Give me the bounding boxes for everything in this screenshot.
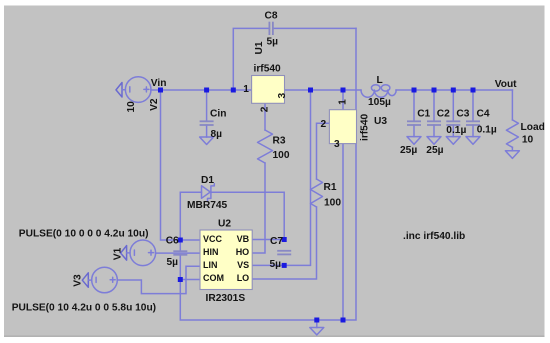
capacitor C3 plates [446,120,460,122]
capacitor C7 plates [277,250,291,252]
wire VB pin stub [252,239,284,241]
ground under Load [505,151,519,159]
svg-text:Load: Load [521,122,545,133]
capacitor Cin plates [200,120,214,122]
inductor L [361,90,396,97]
svg-text:25µ: 25µ [426,145,443,156]
wire C1 leads [413,90,415,121]
wire Load bottom lead [511,147,513,151]
node VB junction [282,237,287,242]
node Cin junction [204,88,209,93]
node COM junction [178,277,183,282]
svg-text:R3: R3 [273,136,286,147]
svg-text:VS: VS [237,260,249,270]
node C8 left junction [231,88,236,93]
svg-text:2: 2 [321,119,327,130]
svg-text:PULSE(0 10 4.2u 0 0 5.8u 10u): PULSE(0 10 4.2u 0 0 5.8u 10u) [12,302,156,313]
node C2 junction [432,88,437,93]
wire switch node U1 to L [285,89,362,91]
resistor R1 [311,179,323,207]
ground under C3 [446,137,460,145]
ground under Cin [200,137,214,145]
wire COM down to ground rail [180,28,356,320]
wire HO to R3 bottom [252,163,265,253]
ground under C1 [407,137,421,145]
wire R1 top to U3 gate [317,123,330,179]
wire C4 leads [472,90,474,121]
wire D1 anode branch [180,192,201,240]
wire Cin top lead [206,90,208,121]
wire ground rail stub [316,320,318,328]
wire C6 bottom lead to COM node [179,255,181,280]
svg-text:V2: V2 [149,98,160,111]
wire U3 source to ground rail [342,144,344,320]
svg-text:10: 10 [522,135,534,146]
svg-text:V1: V1 [112,247,123,260]
svg-text:3: 3 [277,93,288,99]
voltage source V3 [92,267,118,293]
svg-text:IR2301S: IR2301S [206,293,246,304]
svg-text:2: 2 [259,106,270,112]
capacitor C8 plates [268,22,270,35]
wire Vin down to VCC [161,90,201,240]
svg-text:U3: U3 [374,116,387,127]
svg-text:1: 1 [338,99,349,105]
svg-text:8µ: 8µ [211,129,223,140]
svg-text:VB: VB [237,234,250,244]
resistor Load [506,120,518,147]
svg-text:LO: LO [237,273,250,283]
ground under C2 [427,137,441,145]
wire L to Vout [396,89,512,91]
wire C3 leads [452,90,454,121]
ground of V1 [121,246,127,261]
svg-text:.inc irf540.lib: .inc irf540.lib [403,231,465,242]
svg-text:MBR745: MBR745 [187,200,228,211]
wire V3 to LIN [117,266,200,293]
svg-text:V3: V3 [72,274,83,287]
wire D1 cathode to VB [211,192,284,239]
svg-text:1: 1 [243,84,249,95]
node switch/VS junction [308,88,313,93]
node Vin junction [158,88,163,93]
svg-text:C7: C7 [270,236,283,247]
svg-text:R1: R1 [324,182,337,193]
node C3 junction [451,88,456,93]
svg-text:VCC: VCC [203,234,223,244]
svg-text:HIN: HIN [203,247,219,257]
wire LO to R1 bottom [252,207,316,279]
capacitor C2 plates [427,120,441,122]
node VS/C7 junction [282,263,287,268]
svg-text:irf540: irf540 [360,113,371,141]
ground at main rail [310,328,324,335]
node C4 junction [471,88,476,93]
resistor R3 [258,130,273,163]
capacitor C1 plates [407,120,421,122]
node ground rail junction 1 [314,318,319,323]
voltage source V1 [130,240,156,266]
svg-text:C1: C1 [417,109,430,120]
wire C6 top lead [179,240,181,251]
svg-text:irf540: irf540 [254,64,282,75]
ground of V3 [82,273,88,288]
wire C2 leads [433,90,435,121]
body U2 IR2301S gate driver [200,230,252,290]
svg-text:Vin: Vin [151,78,167,89]
svg-text:C6: C6 [166,236,179,247]
svg-text:HO: HO [236,247,250,257]
diode D1 (schottky MBR745) [202,186,211,199]
wire U3 drain to switch node [342,90,344,110]
svg-text:25µ: 25µ [400,145,417,156]
wire C8 right lead [273,27,356,29]
voltage source V2 [125,77,151,103]
capacitor C4 plates [466,120,480,122]
svg-text:5µ: 5µ [167,257,179,268]
svg-text:10: 10 [126,101,137,113]
wire Vin rail [151,89,252,91]
svg-text:0.1µ: 0.1µ [446,125,466,136]
svg-text:COM: COM [203,273,224,283]
svg-text:100: 100 [324,197,341,208]
svg-text:100: 100 [273,150,290,161]
node U3 drain junction [341,88,346,93]
body U3 irf540 (low-side MOSFET) [329,110,356,144]
wire R3 top to U1 gate pin 2 [264,103,266,130]
wire VS pin to switch node [252,90,310,265]
svg-text:0.1µ: 0.1µ [477,124,497,135]
wire C8 left lead [233,28,269,90]
svg-text:U2: U2 [218,219,231,230]
svg-text:Vout: Vout [495,79,517,90]
svg-text:C2: C2 [437,109,450,120]
svg-text:PULSE(0 10 0 0 0 4.2u 10u): PULSE(0 10 0 0 0 4.2u 10u) [19,229,149,240]
svg-text:5µ: 5µ [267,36,279,47]
wire Cin bottom lead [206,125,208,137]
svg-text:LIN: LIN [203,260,218,270]
svg-text:C3: C3 [456,109,469,120]
wire COM pin stub [180,279,200,281]
svg-text:105µ: 105µ [368,97,391,108]
node ground rail junction 2 [341,318,346,323]
svg-text:L: L [377,75,383,86]
svg-text:Cin: Cin [210,109,226,120]
wire V1 to HIN [156,252,200,254]
ground of V2 [116,83,122,98]
wire Vout down to Load [511,90,513,120]
svg-text:D1: D1 [201,175,214,186]
op-amp-like body U1 irf540 (high-side MOSFET) [252,76,285,104]
ground under C4 [466,137,480,145]
svg-text:5µ: 5µ [270,259,282,270]
svg-text:C4: C4 [477,109,490,120]
node C1 junction [412,88,417,93]
capacitor C6 plates [173,250,187,252]
svg-text:C8: C8 [265,10,278,21]
svg-text:U1: U1 [254,41,265,54]
svg-text:3: 3 [334,139,340,150]
node VCC junction [178,238,183,243]
